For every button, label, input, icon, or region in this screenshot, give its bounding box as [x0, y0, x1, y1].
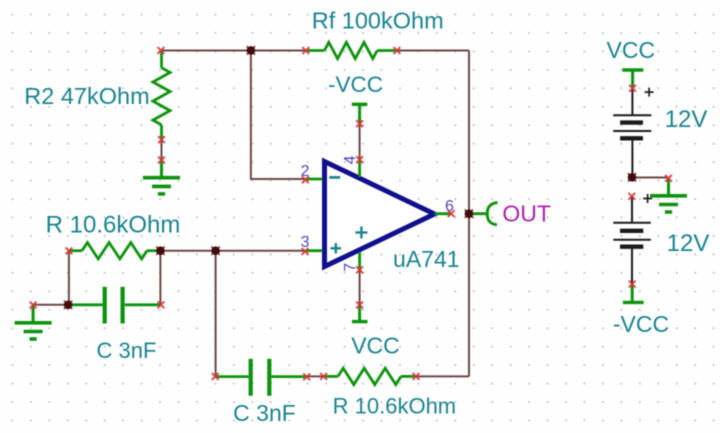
node E battery junction [628, 173, 637, 182]
capacitor C 3nF (bottom) [215, 359, 307, 396]
x-mark pin 4 [356, 156, 363, 163]
x-mark pin 7 [356, 266, 363, 273]
ground right of batteries [650, 178, 687, 212]
node A junction [247, 46, 256, 55]
x-mark Rf right [394, 47, 401, 54]
svg-text:12V: 12V [667, 230, 710, 257]
-VCC supply symbol (pin 4) [352, 104, 368, 123]
battery V1 plus sign [645, 88, 654, 97]
svg-text:R 10.6kOhm: R 10.6kOhm [333, 394, 457, 419]
wire: R 10.6kOhm left down to node D [68, 251, 70, 305]
wire: ground to node D [33, 304, 69, 306]
svg-text:C 3nF: C 3nF [233, 400, 296, 426]
x-mark bottom R right [413, 373, 420, 380]
op-amp pin 6 stub [435, 212, 452, 215]
op-amp minus input marker [329, 176, 340, 179]
op-amp pin 3 stub [305, 249, 323, 252]
capacitor C 3nF (left) [69, 287, 161, 324]
x-mark Rf left [302, 47, 309, 54]
wire: Rf right to top-right corner [397, 50, 469, 52]
x-mark ground right [665, 175, 672, 182]
x-mark battery V2 bottom [629, 281, 636, 288]
op-amp pin 4 stub [358, 160, 361, 177]
svg-text:VCC: VCC [607, 37, 656, 63]
x-mark bottom cap right [303, 373, 310, 380]
node D junction [64, 301, 73, 310]
x-mark pin 6 [448, 210, 455, 217]
wire: node A to Rf left [251, 50, 306, 52]
x-mark battery V2 top [628, 193, 635, 200]
wire: node A down and right to pin 2 [251, 51, 306, 180]
svg-text:12V: 12V [665, 106, 708, 133]
wire: node B down to left capacitor [159, 251, 161, 305]
x-mark battery V1 top [629, 85, 636, 92]
op-amp U1 uA741 triangle [325, 162, 435, 267]
svg-text:VCC: VCC [351, 333, 400, 359]
wire: bottom corner to R 10.6kOhm right [416, 375, 469, 377]
x-mark R2 top [158, 47, 165, 54]
resistor R2 47kOhm [153, 51, 170, 140]
OUT terminal wire [469, 212, 486, 215]
x-mark pin 3 [302, 248, 309, 255]
battery V2 plus sign [643, 194, 652, 203]
svg-text:R 10.6kOhm: R 10.6kOhm [46, 212, 181, 239]
wire: R2 top to node A [161, 50, 251, 52]
svg-text:Rf 100kOhm: Rf 100kOhm [312, 8, 444, 34]
wire: pin 7 to VCC supply [359, 270, 361, 305]
x-mark -VCC supply [356, 120, 363, 127]
wire: R2 bottom to ground [161, 140, 163, 160]
-VCC supply symbol (right) [623, 284, 644, 302]
op-amp plus input marker [331, 243, 342, 254]
output node junction [465, 209, 474, 218]
x-mark R input left [66, 247, 73, 254]
x-mark cap left terminal [158, 301, 165, 308]
x-mark bottom R left [320, 373, 327, 380]
wire: node C down to bottom capacitor [215, 251, 217, 377]
battery V2 12V [613, 196, 651, 284]
x-mark VCC supply [356, 302, 363, 309]
svg-text:-VCC: -VCC [328, 72, 383, 97]
svg-text:-VCC: -VCC [613, 311, 669, 337]
OUT terminal symbol [487, 203, 497, 225]
battery V1 12V [613, 88, 651, 177]
node B junction [156, 246, 165, 255]
wire: -VCC supply to pin 4 [359, 124, 361, 160]
x-mark pin 2 [302, 176, 309, 183]
resistor R 10.6kOhm (bottom) [324, 368, 416, 384]
op-amp pin 7 stub [358, 252, 361, 270]
x-mark ground left [30, 302, 37, 309]
svg-text:C 3nF: C 3nF [97, 338, 157, 363]
svg-text:uA741: uA741 [393, 246, 460, 272]
ground under R2 [143, 160, 180, 194]
VCC supply symbol (pin 7) [352, 305, 368, 322]
op-amp center plus marker [355, 227, 367, 239]
wire: battery node E to right ground [632, 177, 669, 179]
x-mark R2 bottom [158, 136, 165, 143]
wire: bottom cap right to R left [307, 375, 324, 377]
resistor Rf 100kOhm [306, 42, 397, 58]
svg-text:R2 47kOhm: R2 47kOhm [24, 83, 149, 109]
wire: right vertical feedback/output rail [468, 51, 470, 377]
x-mark ground under R2 [158, 157, 165, 164]
wire: node B to pin 3 [160, 250, 305, 252]
VCC supply symbol (right) [622, 70, 643, 88]
x-mark bottom cap left [212, 373, 219, 380]
op-amp pin 2 stub [305, 178, 322, 181]
svg-text:OUT: OUT [502, 201, 551, 227]
ground left [15, 305, 52, 339]
node C junction [211, 246, 220, 255]
resistor R 10.6kOhm (input) [69, 243, 160, 259]
